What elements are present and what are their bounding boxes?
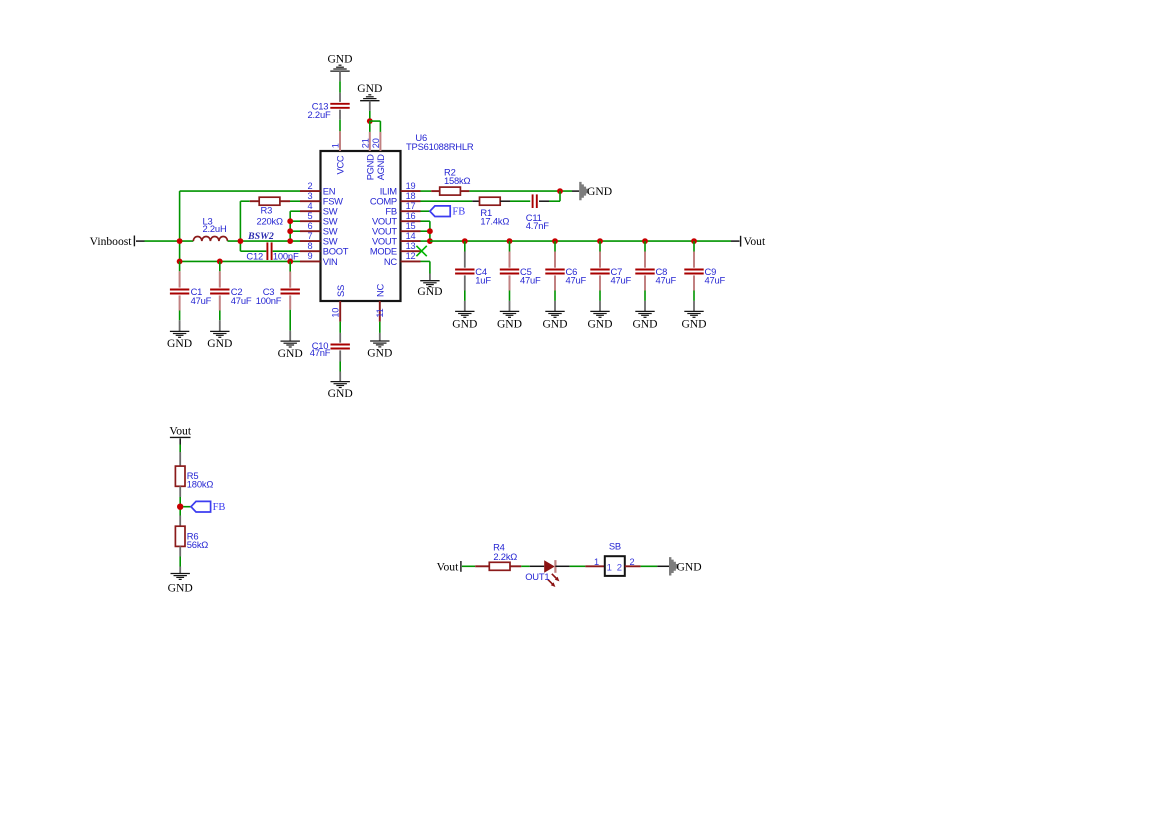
svg-text:SB: SB <box>609 541 621 552</box>
svg-text:6: 6 <box>308 221 313 231</box>
svg-text:4: 4 <box>308 201 313 211</box>
svg-text:NC: NC <box>374 284 385 297</box>
svg-text:GND: GND <box>542 317 567 330</box>
svg-text:180kΩ: 180kΩ <box>187 478 214 489</box>
svg-text:GND: GND <box>681 317 706 330</box>
svg-text:56kΩ: 56kΩ <box>187 539 209 550</box>
svg-text:12: 12 <box>406 251 416 261</box>
svg-text:17: 17 <box>406 201 416 211</box>
svg-text:2.2uF: 2.2uF <box>308 109 331 120</box>
svg-text:Vout: Vout <box>744 235 766 248</box>
svg-text:9: 9 <box>308 251 313 261</box>
svg-text:2: 2 <box>308 181 313 191</box>
svg-text:FB: FB <box>213 502 226 513</box>
svg-text:1: 1 <box>594 557 599 567</box>
svg-text:GND: GND <box>357 82 382 95</box>
svg-text:GND: GND <box>632 317 657 330</box>
svg-text:47uF: 47uF <box>520 275 541 286</box>
svg-text:47nF: 47nF <box>310 347 331 358</box>
svg-text:100nF: 100nF <box>273 250 299 261</box>
svg-text:4.7nF: 4.7nF <box>526 220 549 231</box>
svg-text:47uF: 47uF <box>611 275 632 286</box>
svg-text:GND: GND <box>677 560 702 573</box>
svg-text:GND: GND <box>328 387 353 400</box>
svg-text:GND: GND <box>587 185 612 198</box>
svg-text:2: 2 <box>617 563 622 574</box>
svg-text:17.4kΩ: 17.4kΩ <box>480 216 509 227</box>
svg-text:GND: GND <box>452 317 477 330</box>
svg-text:8: 8 <box>308 241 313 251</box>
svg-text:47uF: 47uF <box>656 275 677 286</box>
svg-text:7: 7 <box>308 231 313 241</box>
svg-text:GND: GND <box>207 337 232 350</box>
svg-text:11: 11 <box>375 308 385 317</box>
svg-text:19: 19 <box>406 181 416 191</box>
svg-text:Vout: Vout <box>169 424 191 437</box>
svg-text:FB: FB <box>452 207 465 218</box>
svg-text:BSW2: BSW2 <box>247 231 274 242</box>
svg-text:18: 18 <box>406 191 416 201</box>
svg-text:SS: SS <box>335 285 346 297</box>
svg-text:158kΩ: 158kΩ <box>444 175 471 186</box>
svg-text:Vinboost: Vinboost <box>90 235 133 248</box>
svg-text:16: 16 <box>406 211 416 221</box>
svg-text:220kΩ: 220kΩ <box>257 215 284 226</box>
svg-text:GND: GND <box>417 285 442 298</box>
svg-text:GND: GND <box>167 337 192 350</box>
svg-text:VCC: VCC <box>335 155 346 174</box>
svg-text:GND: GND <box>168 581 193 594</box>
svg-text:10: 10 <box>331 308 341 318</box>
svg-text:PGND: PGND <box>365 154 376 180</box>
svg-text:47uF: 47uF <box>705 275 726 286</box>
svg-text:3: 3 <box>308 191 313 201</box>
svg-text:NC: NC <box>384 256 397 267</box>
svg-text:47uF: 47uF <box>231 295 252 306</box>
svg-text:VIN: VIN <box>323 256 338 267</box>
svg-text:15: 15 <box>406 221 416 231</box>
svg-text:GND: GND <box>367 346 392 359</box>
svg-text:47uF: 47uF <box>566 275 587 286</box>
svg-text:2.2kΩ: 2.2kΩ <box>493 551 517 562</box>
svg-text:AGND: AGND <box>375 154 386 180</box>
svg-text:OUT1: OUT1 <box>525 571 549 582</box>
svg-text:47uF: 47uF <box>191 295 212 306</box>
svg-text:100nF: 100nF <box>256 295 282 306</box>
svg-text:1: 1 <box>607 563 612 574</box>
svg-text:20: 20 <box>371 138 381 148</box>
svg-text:2: 2 <box>630 557 635 567</box>
svg-text:GND: GND <box>278 347 303 360</box>
svg-text:Vout: Vout <box>437 560 459 573</box>
svg-text:2.2uH: 2.2uH <box>203 223 227 234</box>
svg-text:R3: R3 <box>261 205 273 216</box>
svg-text:GND: GND <box>327 52 352 65</box>
svg-text:13: 13 <box>406 241 416 251</box>
svg-text:GND: GND <box>497 317 522 330</box>
svg-text:TPS61088RHLR: TPS61088RHLR <box>406 141 474 152</box>
svg-text:1: 1 <box>331 143 341 148</box>
svg-text:14: 14 <box>406 231 416 241</box>
svg-text:C12: C12 <box>246 250 263 261</box>
svg-text:5: 5 <box>308 211 313 221</box>
svg-text:1uF: 1uF <box>475 275 491 286</box>
svg-text:21: 21 <box>361 138 371 148</box>
svg-text:GND: GND <box>587 317 612 330</box>
